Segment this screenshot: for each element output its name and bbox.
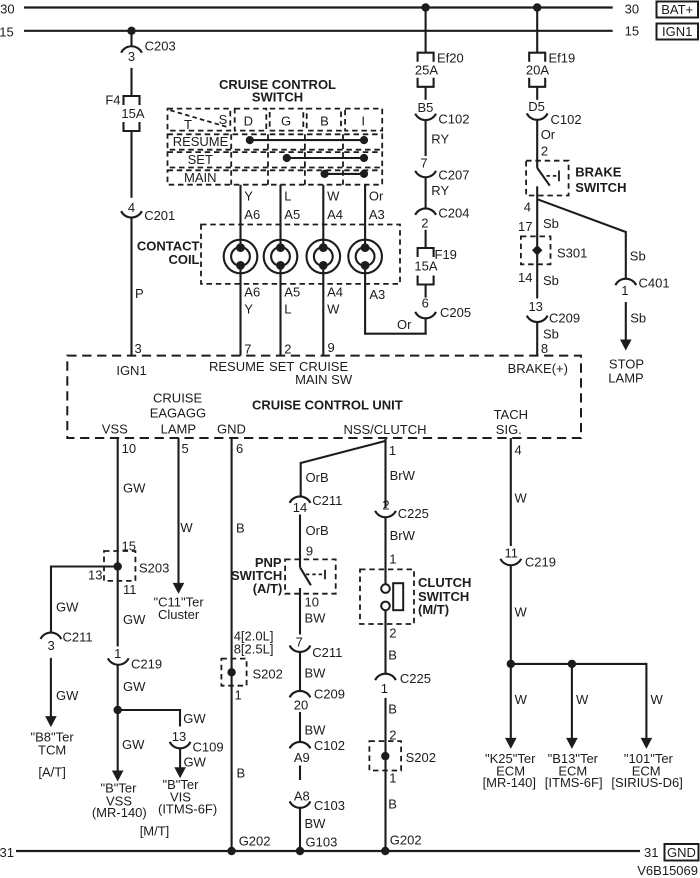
svg-text:Or: Or <box>541 127 556 142</box>
splice S301 <box>521 236 551 264</box>
coil slip-ring A5 <box>264 240 298 274</box>
svg-text:15: 15 <box>625 23 639 38</box>
wire C219 to ECM junction, color W <box>510 566 512 664</box>
svg-text:W: W <box>515 604 528 619</box>
wire unit pin 1 down, color BrW <box>384 438 386 508</box>
connector C225 pin 1 <box>375 674 396 680</box>
wire brake switch to C209, pin 4, color Sb, pin 17/14 S301 <box>536 186 538 298</box>
svg-text:RESUME: RESUME <box>173 134 229 149</box>
svg-text:Ef19: Ef19 <box>549 50 576 65</box>
svg-text:C211: C211 <box>312 645 342 660</box>
wire Ef20 to C102 <box>425 87 427 100</box>
ECM distribution junctions <box>507 660 515 668</box>
coil slip-ring A4 <box>307 240 341 274</box>
junction on bus 30 for Ef19 <box>533 3 541 11</box>
svg-text:5: 5 <box>182 441 189 456</box>
svg-text:(MR-140): (MR-140) <box>92 805 147 820</box>
svg-text:GND: GND <box>217 421 246 436</box>
svg-text:1: 1 <box>389 771 396 786</box>
svg-text:2: 2 <box>284 342 291 357</box>
svg-text:Ef20: Ef20 <box>437 50 464 65</box>
svg-text:C201: C201 <box>144 208 175 223</box>
wire F4 to C201 <box>130 131 132 198</box>
BAT+ net box <box>657 2 699 18</box>
svg-text:V6B15069: V6B15069 <box>637 863 698 878</box>
svg-text:14: 14 <box>518 270 532 285</box>
svg-text:W: W <box>327 302 340 317</box>
IGN1 net box <box>657 24 699 40</box>
wire diagonal to C401, color Sb <box>625 231 627 279</box>
fuse Ef19 20A <box>529 53 545 62</box>
wire bus15 to C203 <box>130 31 132 46</box>
switch row RESUME <box>168 134 383 149</box>
svg-text:1: 1 <box>114 646 121 661</box>
svg-text:C401: C401 <box>639 276 670 291</box>
connector C203 pin 3 <box>121 46 142 52</box>
svg-text:EAGAGG: EAGAGG <box>150 406 206 421</box>
svg-text:BRAKE: BRAKE <box>575 165 622 180</box>
wire switch D to coil, color Y pin A6 <box>239 185 241 250</box>
wire switch I to coil, color Or pin A3 <box>364 185 366 250</box>
splice S202 right <box>369 741 401 770</box>
svg-text:15A: 15A <box>121 106 144 121</box>
svg-text:GW: GW <box>123 481 146 496</box>
svg-text:C102: C102 <box>551 112 582 127</box>
switch header cell D <box>235 109 267 131</box>
PNP switch blade <box>300 567 311 585</box>
wire bus30 to Ef19 <box>536 8 538 53</box>
svg-text:Sb: Sb <box>543 327 559 342</box>
svg-text:2: 2 <box>389 727 396 742</box>
fuse F4 15A <box>124 96 140 105</box>
svg-text:SET: SET <box>269 359 294 374</box>
svg-text:25A: 25A <box>415 63 438 78</box>
svg-text:TACH: TACH <box>494 407 528 422</box>
connector C211 pin 3 <box>41 633 62 639</box>
switch header cell B <box>307 109 341 131</box>
switch header cell G <box>270 109 304 131</box>
wire C209 to unit pin 8, color Sb <box>536 323 538 356</box>
svg-text:[MR-140]: [MR-140] <box>483 775 536 790</box>
wire Ef19 to C102-D5 <box>536 87 538 100</box>
wire C203 to fuse F4 <box>130 68 132 96</box>
svg-text:A3: A3 <box>369 287 385 302</box>
svg-text:SIG.: SIG. <box>496 422 522 437</box>
svg-text:GW: GW <box>183 711 206 726</box>
connector C204 pin 2 <box>415 208 436 214</box>
connector C102 pin A9 <box>290 742 311 748</box>
svg-text:OrB: OrB <box>306 523 329 538</box>
wire C211 to PNP switch, color OrB, pin 9 <box>299 515 301 568</box>
wire C205 to fuse F19 <box>425 285 427 298</box>
svg-text:13: 13 <box>528 299 542 314</box>
svg-text:11: 11 <box>123 582 137 597</box>
svg-text:7: 7 <box>296 634 303 649</box>
svg-text:B: B <box>388 701 397 716</box>
wire C225 to ground, color B <box>384 698 386 851</box>
wire C225 to clutch switch, color BrW, pin 1 <box>384 518 386 585</box>
svg-text:Sb: Sb <box>543 216 559 231</box>
wire unit pin 4 to C219, color W <box>510 438 512 546</box>
wire unit pin 6 to ground, color B <box>231 438 233 851</box>
svg-text:GW: GW <box>122 737 145 752</box>
svg-text:Y: Y <box>244 302 253 317</box>
svg-text:2: 2 <box>382 497 389 512</box>
svg-text:OrB: OrB <box>306 470 329 485</box>
GND net box <box>665 844 699 861</box>
cruise control unit box <box>67 356 581 438</box>
svg-text:30: 30 <box>625 2 639 17</box>
wire bus30 to Ef20 <box>425 8 427 53</box>
wire C209 to C102, color BW <box>299 712 301 742</box>
wire C207 to C102-B5, color RY <box>425 121 427 156</box>
svg-text:13: 13 <box>88 567 102 582</box>
svg-text:W: W <box>180 520 193 535</box>
wire coil A6 to unit pin 7 <box>239 264 241 356</box>
power bus 15 (IGN1) <box>24 30 613 32</box>
coil slip-ring A3 <box>348 240 382 274</box>
svg-text:RESUME: RESUME <box>209 359 265 374</box>
svg-text:F19: F19 <box>435 247 457 262</box>
svg-text:W: W <box>576 692 589 707</box>
svg-text:3: 3 <box>135 341 142 356</box>
coil slip-ring A6 <box>224 240 258 274</box>
svg-text:10: 10 <box>305 595 319 610</box>
svg-text:1: 1 <box>381 681 388 696</box>
svg-text:L: L <box>284 189 291 204</box>
junction on bus 30 for Ef20 <box>421 3 429 11</box>
svg-text:A8: A8 <box>294 788 310 803</box>
brake switch blade <box>537 168 550 186</box>
wire switch B to coil, color W pin A4 <box>322 185 324 250</box>
svg-text:CRUISE CONTROL UNIT: CRUISE CONTROL UNIT <box>252 398 403 413</box>
svg-text:NSS/CLUTCH: NSS/CLUTCH <box>343 422 426 437</box>
wire brake switch to stop lamp diagonal <box>537 199 626 232</box>
wire pin 1 diagonal to PNP branch <box>301 441 386 463</box>
svg-text:T: T <box>184 117 192 132</box>
svg-text:2: 2 <box>421 216 428 231</box>
svg-text:7: 7 <box>420 156 427 171</box>
contact MAIN B-I <box>325 173 364 175</box>
switch header cell I <box>345 109 382 131</box>
wire C109 to VIS, color GW <box>179 749 181 768</box>
arrow to stop lamp <box>620 340 632 351</box>
svg-text:A5: A5 <box>284 207 300 222</box>
svg-text:BRAKE(+): BRAKE(+) <box>508 361 568 376</box>
svg-text:F4: F4 <box>105 93 120 108</box>
svg-text:C205: C205 <box>440 305 471 320</box>
svg-text:B: B <box>237 765 246 780</box>
connector C209 pin 20 <box>290 691 311 697</box>
svg-text:C209: C209 <box>314 687 345 702</box>
svg-text:MAIN: MAIN <box>184 170 217 185</box>
svg-text:4: 4 <box>515 442 522 457</box>
svg-text:S202: S202 <box>253 667 283 682</box>
wire switch G to coil, color L pin A5 <box>279 185 281 250</box>
svg-text:G: G <box>281 114 291 129</box>
wire unit pin 10 to C219, color GW <box>117 438 119 647</box>
power bus 30 (BAT+) <box>24 6 613 8</box>
svg-text:C211: C211 <box>312 493 342 508</box>
svg-text:LAMP: LAMP <box>161 421 196 436</box>
wire C211 to C209, color BW <box>299 653 301 691</box>
PNP switch actuator <box>306 573 325 575</box>
svg-text:31: 31 <box>644 845 658 860</box>
svg-text:2: 2 <box>541 144 548 159</box>
svg-text:BW: BW <box>305 816 327 831</box>
wire to ECM 101, color W <box>645 663 647 740</box>
arrow to VSS <box>112 771 124 782</box>
splice S202 left <box>221 659 246 686</box>
svg-text:A9: A9 <box>294 750 310 765</box>
svg-text:SWITCH: SWITCH <box>575 180 626 195</box>
svg-text:8: 8 <box>541 341 548 356</box>
svg-text:(A/T): (A/T) <box>253 581 283 596</box>
clutch switch box <box>360 569 414 624</box>
svg-text:C102: C102 <box>438 111 469 126</box>
connector C401 pin 1 <box>615 279 636 285</box>
svg-text:SWITCH: SWITCH <box>252 90 303 105</box>
svg-text:MAIN SW: MAIN SW <box>295 372 353 387</box>
svg-text:Sb: Sb <box>630 249 646 264</box>
arrow to VIS <box>174 767 186 778</box>
svg-text:GW: GW <box>184 754 207 769</box>
wire coil A4 to unit pin 9 <box>322 264 324 356</box>
svg-text:15A: 15A <box>414 259 437 274</box>
svg-text:STOP: STOP <box>609 357 644 372</box>
svg-text:7: 7 <box>244 342 251 357</box>
wire junction to C109 branch <box>118 709 181 711</box>
svg-text:20A: 20A <box>526 63 549 78</box>
wire coil A5 to unit pin 2 <box>279 264 281 356</box>
svg-text:9: 9 <box>328 340 335 355</box>
wire C204 to F19 <box>425 230 427 248</box>
svg-text:G202: G202 <box>239 834 271 849</box>
svg-text:1: 1 <box>235 688 242 703</box>
brake switch actuator <box>547 175 560 177</box>
wire C219 to VSS terminal, color GW <box>117 665 119 771</box>
svg-text:1: 1 <box>389 552 396 567</box>
wire unit pin 5 to cluster, color W <box>177 438 179 584</box>
svg-text:BAT+: BAT+ <box>661 2 693 17</box>
svg-text:S301: S301 <box>557 246 587 261</box>
svg-text:17: 17 <box>518 219 532 234</box>
fuse Ef20 25A <box>418 53 434 62</box>
switch row MAIN <box>168 170 383 184</box>
switch row SET <box>168 152 383 167</box>
clutch switch plunger <box>393 583 403 610</box>
svg-text:C209: C209 <box>549 311 580 326</box>
svg-text:15: 15 <box>0 25 14 40</box>
svg-text:B: B <box>320 114 329 129</box>
svg-text:3: 3 <box>128 49 135 64</box>
svg-text:13: 13 <box>172 729 186 744</box>
svg-text:BW: BW <box>305 611 327 626</box>
svg-text:C204: C204 <box>438 206 469 221</box>
svg-text:GND: GND <box>667 845 696 860</box>
svg-text:20: 20 <box>294 698 308 713</box>
svg-text:I: I <box>361 114 365 129</box>
svg-text:A6: A6 <box>244 207 260 222</box>
svg-text:G103: G103 <box>306 835 338 850</box>
svg-text:A3: A3 <box>369 207 385 222</box>
svg-text:B: B <box>236 521 245 536</box>
svg-text:VSS: VSS <box>102 421 128 436</box>
svg-text:D5: D5 <box>528 99 545 114</box>
svg-text:Sb: Sb <box>630 311 646 326</box>
svg-text:C109: C109 <box>193 739 224 754</box>
svg-text:BW: BW <box>305 722 327 737</box>
svg-text:(M/T): (M/T) <box>418 602 449 617</box>
svg-text:9: 9 <box>306 543 313 558</box>
svg-text:CRUISE: CRUISE <box>153 391 202 406</box>
svg-text:S203: S203 <box>139 561 169 576</box>
wire C401 to stop lamp, color Sb <box>625 302 627 341</box>
svg-text:Y: Y <box>244 189 253 204</box>
svg-text:6: 6 <box>236 441 243 456</box>
arrow to ECM 101 <box>641 738 653 749</box>
svg-text:B5: B5 <box>417 100 433 115</box>
connector C211 pin 14 <box>290 496 311 502</box>
svg-text:1: 1 <box>389 443 396 458</box>
svg-text:IGN1: IGN1 <box>662 24 692 39</box>
svg-text:A6: A6 <box>244 285 260 300</box>
arrow to cluster <box>173 583 185 594</box>
svg-text:C103: C103 <box>314 798 345 813</box>
svg-text:W: W <box>327 189 340 204</box>
svg-text:8[2.5L]: 8[2.5L] <box>234 641 274 656</box>
fuse F19 15A <box>418 248 434 257</box>
svg-text:31: 31 <box>0 845 14 860</box>
wire C211 to TCM, color GW <box>50 658 52 717</box>
svg-text:10: 10 <box>122 441 136 456</box>
svg-text:[SIRIUS-D6]: [SIRIUS-D6] <box>611 775 683 790</box>
wire C102 to C103 <box>299 766 301 781</box>
svg-text:(ITMS-6F): (ITMS-6F) <box>158 801 217 816</box>
contact SET G-I <box>287 157 364 159</box>
svg-text:TCM: TCM <box>38 742 66 757</box>
svg-text:30: 30 <box>0 2 14 17</box>
svg-text:RY: RY <box>431 183 449 198</box>
wire clutch switch to C225, pin 2, color B <box>384 610 386 673</box>
junction on bus 15 <box>127 27 135 35</box>
svg-text:GW: GW <box>56 600 79 615</box>
svg-text:W: W <box>651 692 664 707</box>
svg-text:Cluster: Cluster <box>158 607 200 622</box>
brake switch box <box>526 161 569 196</box>
svg-text:A5: A5 <box>284 285 300 300</box>
svg-text:GW: GW <box>123 679 146 694</box>
svg-text:S202: S202 <box>406 750 436 765</box>
svg-text:B: B <box>388 648 397 663</box>
svg-text:6: 6 <box>422 296 429 311</box>
svg-text:L: L <box>284 302 291 317</box>
wire to ECM K25, color W <box>510 664 512 740</box>
switch header cell T/S <box>168 109 231 131</box>
junction to C109 branch <box>114 706 122 714</box>
svg-text:C102: C102 <box>314 738 345 753</box>
svg-text:A4: A4 <box>327 207 343 222</box>
svg-text:BrW: BrW <box>390 528 416 543</box>
svg-text:GW: GW <box>56 688 79 703</box>
svg-text:2: 2 <box>389 626 396 641</box>
svg-text:BrW: BrW <box>390 468 416 483</box>
svg-text:4: 4 <box>524 200 531 215</box>
svg-text:1: 1 <box>621 283 628 298</box>
svg-text:C219: C219 <box>131 657 162 672</box>
svg-text:COIL: COIL <box>168 252 199 267</box>
wire C204 to C207, color RY <box>425 178 427 209</box>
svg-text:11: 11 <box>504 545 518 560</box>
arrow to ECM B13 <box>566 738 578 749</box>
svg-text:W: W <box>515 692 528 707</box>
svg-text:BW: BW <box>305 665 327 680</box>
svg-text:[ITMS-6F]: [ITMS-6F] <box>545 775 603 790</box>
clutch switch contacts <box>381 584 390 593</box>
svg-text:Or: Or <box>397 317 412 332</box>
svg-text:C203: C203 <box>145 39 176 54</box>
PNP switch box <box>285 559 336 593</box>
svg-text:A4: A4 <box>327 285 343 300</box>
wire C201 to unit pin 3, color P <box>130 218 132 355</box>
contact coil box <box>201 225 400 284</box>
svg-text:14: 14 <box>293 500 307 515</box>
svg-text:Or: Or <box>369 189 384 204</box>
wire C103 to ground G103, color BW <box>299 808 301 851</box>
svg-text:C211: C211 <box>63 630 93 645</box>
svg-text:C207: C207 <box>438 168 469 183</box>
svg-text:B: B <box>388 796 397 811</box>
header diagonal <box>170 110 228 127</box>
wire S203 to left branch <box>50 565 118 567</box>
wire C102 to brake switch, color Or, pin 2 <box>536 120 538 167</box>
wire PNP to C211 pin 7, pin 10, color BW <box>299 588 301 635</box>
arrow to TCM <box>45 716 57 727</box>
svg-text:4: 4 <box>128 200 135 215</box>
svg-text:[M/T]: [M/T] <box>140 824 170 839</box>
svg-text:3: 3 <box>47 638 54 653</box>
svg-text:CLUTCH: CLUTCH <box>418 575 471 590</box>
svg-text:D: D <box>244 114 253 129</box>
svg-text:[A/T]: [A/T] <box>38 765 65 780</box>
svg-text:P: P <box>135 286 144 301</box>
contact RESUME D-I <box>250 139 364 141</box>
svg-text:C225: C225 <box>400 671 431 686</box>
splice S203 <box>104 551 135 581</box>
wire coil A3 down and right to C205, color Or <box>364 264 366 334</box>
svg-text:LAMP: LAMP <box>608 371 643 386</box>
svg-text:Sb: Sb <box>543 273 559 288</box>
wire left branch down, color GW <box>50 567 52 633</box>
svg-text:G202: G202 <box>390 832 422 847</box>
svg-text:GW: GW <box>123 612 146 627</box>
wire to ECM B13, color W <box>571 664 573 740</box>
ground bus 31 (GND) <box>16 850 640 852</box>
svg-text:SET: SET <box>188 152 213 167</box>
svg-text:W: W <box>515 491 528 506</box>
svg-text:C225: C225 <box>398 506 429 521</box>
svg-text:C219: C219 <box>525 554 556 569</box>
svg-text:IGN1: IGN1 <box>116 363 146 378</box>
svg-text:S: S <box>219 112 228 127</box>
svg-text:RY: RY <box>431 132 449 147</box>
arrow to ECM K25 <box>505 738 517 749</box>
